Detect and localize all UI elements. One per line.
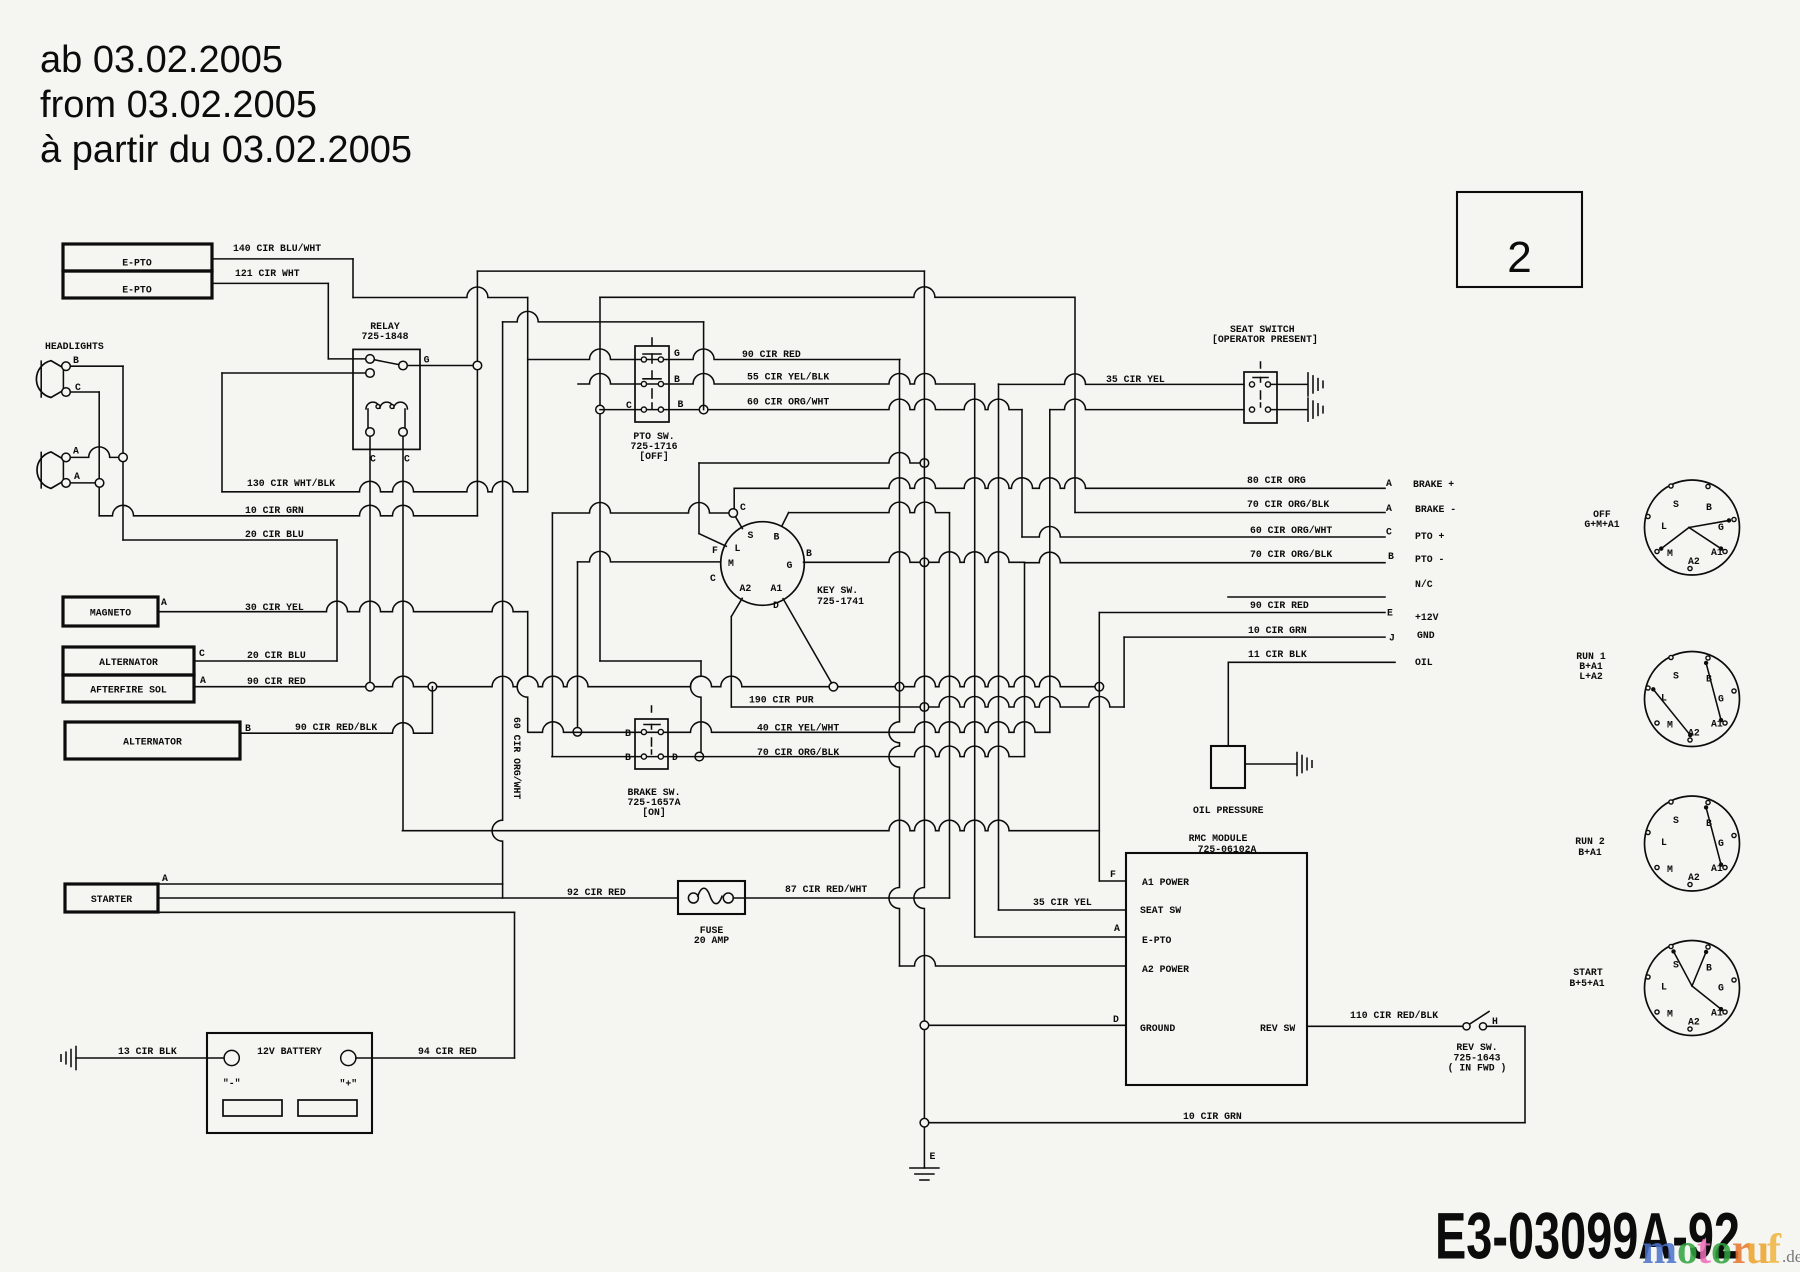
- wire brake- drop: [1074, 297, 1076, 512]
- svg-text:35 CIR YEL: 35 CIR YEL: [1106, 374, 1165, 385]
- wire headlight B to bus: [71, 365, 123, 367]
- brake switch contacts top: [641, 729, 646, 734]
- svg-text:B: B: [625, 728, 631, 739]
- svg-text:E: E: [1387, 608, 1393, 619]
- 12V BATTERY box: [207, 1033, 372, 1133]
- svg-text:à partir du 03.02.2005: à partir du 03.02.2005: [40, 129, 412, 171]
- svg-text:G: G: [1718, 522, 1724, 533]
- svg-text:START: START: [1573, 967, 1603, 978]
- wire branch down to PTO C east: [703, 322, 705, 410]
- svg-text:J: J: [1389, 633, 1395, 644]
- svg-text:S: S: [1673, 671, 1679, 682]
- svg-text:G: G: [674, 348, 680, 359]
- svg-text:140 CIR BLU/WHT: 140 CIR BLU/WHT: [233, 243, 321, 254]
- svg-text:OIL PRESSURE: OIL PRESSURE: [1193, 805, 1264, 816]
- svg-text:L: L: [735, 543, 741, 554]
- seat switch actuator: [1260, 362, 1262, 368]
- svg-text:90 CIR RED: 90 CIR RED: [247, 676, 306, 687]
- wire row from relay coil to A1 power: [402, 820, 1099, 831]
- junction PTO C west: [596, 405, 605, 414]
- fuse terminal left: [688, 893, 698, 903]
- svg-text:STARTER: STARTER: [91, 894, 132, 905]
- wire 40 YEL/WHT riser: [1049, 410, 1051, 733]
- svg-text:o: o: [1677, 1227, 1698, 1272]
- wire key M drop: [578, 551, 723, 562]
- svg-text:13 CIR BLK: 13 CIR BLK: [118, 1046, 177, 1057]
- wire PTO+ drop: [1021, 410, 1023, 537]
- svg-text:60 CIR ORG/WHT: 60 CIR ORG/WHT: [747, 397, 829, 408]
- svg-text:B+A1: B+A1: [1578, 847, 1602, 858]
- junction PTO C east drop: [699, 405, 708, 414]
- svg-text:10 CIR GRN: 10 CIR GRN: [1183, 1111, 1242, 1122]
- battery terminal negative: [224, 1050, 239, 1065]
- junction key B to ground bus: [920, 558, 929, 567]
- svg-text:20 CIR BLU: 20 CIR BLU: [247, 650, 306, 661]
- svg-text:BRAKE -: BRAKE -: [1415, 504, 1456, 515]
- headlight lamp 2: [37, 452, 62, 489]
- key switch A2 pin: [731, 598, 742, 616]
- svg-text:80 CIR ORG: 80 CIR ORG: [1247, 475, 1306, 486]
- relay contact C: [366, 369, 375, 378]
- svg-text:2: 2: [1507, 233, 1531, 282]
- svg-text:MAGNETO: MAGNETO: [90, 608, 131, 619]
- svg-text:90 CIR RED: 90 CIR RED: [742, 349, 801, 360]
- svg-text:B: B: [674, 374, 680, 385]
- svg-text:GND: GND: [1417, 630, 1435, 641]
- svg-text:A: A: [200, 675, 206, 686]
- junction ground bus at GROUND pin: [920, 1021, 929, 1030]
- svg-text:KEY SW.: KEY SW.: [817, 585, 858, 596]
- wire N/C: [1228, 596, 1385, 598]
- wire relay coil right drop: [402, 437, 404, 831]
- wire starter bottom row: [158, 911, 515, 913]
- svg-text:110 CIR RED/BLK: 110 CIR RED/BLK: [1350, 1010, 1438, 1021]
- junction relay coil left on 90 CIR RED: [366, 682, 375, 691]
- svg-text:"+": "+": [339, 1079, 357, 1090]
- wire key B to fuse feed: [789, 502, 950, 513]
- svg-text:A: A: [1386, 478, 1392, 489]
- battery terminal positive: [341, 1050, 356, 1065]
- svg-text:C: C: [710, 573, 716, 584]
- svg-text:B: B: [1388, 551, 1394, 562]
- svg-text:( IN FWD ): ( IN FWD ): [1448, 1063, 1507, 1074]
- battery cell plate right: [298, 1100, 357, 1116]
- headlight lamp 1: [36, 361, 62, 398]
- svg-text:94 CIR RED: 94 CIR RED: [418, 1046, 477, 1057]
- svg-text:G+M+A1: G+M+A1: [1584, 519, 1619, 530]
- svg-text:90 CIR RED: 90 CIR RED: [1250, 600, 1309, 611]
- wire 60 CIR ORG/WHT vertical: [492, 322, 502, 898]
- wire GND riser: [1123, 637, 1125, 707]
- svg-text:A1 POWER: A1 POWER: [1142, 877, 1189, 888]
- wire oil sensor to ground: [1245, 763, 1296, 765]
- junction on 40 CIR YEL/WHT: [573, 728, 582, 737]
- PTO switch contacts row y=409.6: [641, 407, 646, 412]
- svg-text:[ON]: [ON]: [642, 807, 666, 818]
- svg-text:H: H: [1492, 1016, 1498, 1027]
- fuse 20 AMP body: [678, 881, 745, 914]
- PTO switch actuator: [651, 338, 653, 345]
- battery cell plate left: [223, 1100, 282, 1116]
- fuse element: [698, 888, 722, 903]
- svg-text:A1: A1: [771, 583, 783, 594]
- junction key switch D on 90 CIR RED: [829, 682, 838, 691]
- svg-text:A2: A2: [1688, 556, 1700, 567]
- svg-text:12V BATTERY: 12V BATTERY: [257, 1046, 322, 1057]
- wire headlight A to junction: [71, 447, 119, 458]
- wire upper right distribution row: [600, 287, 1074, 298]
- junction ground bus at 10 CIR GRN: [920, 1118, 929, 1127]
- OIL PRESSURE sensor box: [1211, 746, 1245, 788]
- svg-text:F: F: [1110, 869, 1116, 880]
- relay coil: [366, 402, 407, 409]
- svg-text:C: C: [740, 502, 746, 513]
- svg-text:A: A: [74, 471, 80, 482]
- PTO switch contacts row y=359.5: [641, 357, 646, 362]
- relay switch blade: [374, 360, 398, 365]
- seat switch contacts top: [1249, 382, 1254, 387]
- brake switch contacts bottom: [641, 754, 646, 759]
- svg-text:ALTERNATOR: ALTERNATOR: [123, 737, 182, 748]
- svg-text:D: D: [773, 600, 779, 611]
- wire relay coil left drop: [369, 437, 371, 682]
- headlight 1 terminal C: [62, 388, 71, 397]
- wire fuse feed vertical: [949, 513, 951, 898]
- wire seat switch to ground top: [1271, 383, 1307, 385]
- junction on ground bus upper: [920, 459, 929, 468]
- svg-text:35 CIR YEL: 35 CIR YEL: [1033, 897, 1092, 908]
- svg-text:AFTERFIRE SOL: AFTERFIRE SOL: [90, 685, 167, 696]
- svg-text:D: D: [1113, 1014, 1119, 1025]
- junction on lamp bus: [119, 453, 128, 462]
- wire seat switch to ground bottom: [1271, 409, 1307, 411]
- svg-text:+12V: +12V: [1415, 612, 1439, 623]
- svg-text:725-1741: 725-1741: [817, 596, 864, 607]
- headlight 2 terminal A2: [62, 479, 71, 488]
- svg-text:S: S: [1673, 499, 1679, 510]
- svg-text:D: D: [672, 752, 678, 763]
- wire seat switch pin drop: [998, 384, 1000, 910]
- svg-text:"-": "-": [223, 1078, 241, 1089]
- svg-text:G: G: [787, 560, 793, 571]
- svg-text:REV SW: REV SW: [1260, 1023, 1295, 1034]
- svg-text:A: A: [73, 446, 79, 457]
- fuse terminal right: [723, 893, 733, 903]
- svg-text:L+A2: L+A2: [1579, 671, 1603, 682]
- wire headlight A2 to junction: [71, 482, 95, 484]
- relay coil pin C (right): [399, 428, 408, 437]
- svg-text:B: B: [625, 752, 631, 763]
- wire branch row to PTO C: [503, 311, 704, 322]
- PTO switch body: [635, 346, 669, 422]
- svg-text:B: B: [1706, 963, 1712, 974]
- svg-text:ab 03.02.2005: ab 03.02.2005: [40, 39, 283, 81]
- ground chassis at battery: [75, 1047, 77, 1070]
- AFTERFIRE SOL box: [63, 675, 194, 702]
- svg-text:t: t: [1697, 1227, 1711, 1272]
- svg-text:92 CIR RED: 92 CIR RED: [567, 887, 626, 898]
- svg-text:S: S: [1673, 815, 1679, 826]
- svg-text:S: S: [748, 530, 754, 541]
- svg-text:PTO +: PTO +: [1415, 531, 1445, 542]
- junction relay G on loop: [473, 361, 482, 370]
- svg-text:B+5+A1: B+5+A1: [1569, 978, 1604, 989]
- ground chassis seat top: [1307, 373, 1309, 396]
- svg-text:from 03.02.2005: from 03.02.2005: [40, 84, 317, 126]
- svg-text:M: M: [1667, 720, 1673, 731]
- svg-text:G: G: [1718, 983, 1724, 994]
- wire PTO C bus vertical: [599, 297, 601, 661]
- svg-text:G: G: [1718, 694, 1724, 705]
- svg-text:M: M: [728, 558, 734, 569]
- svg-text:ALTERNATOR: ALTERNATOR: [99, 657, 158, 668]
- svg-text:B: B: [678, 399, 684, 410]
- svg-text:C: C: [370, 454, 376, 465]
- RMC A2 POWER wire: [900, 956, 1127, 967]
- svg-text:M: M: [1667, 548, 1673, 559]
- svg-text:BRAKE +: BRAKE +: [1413, 479, 1454, 490]
- svg-text:L: L: [1661, 837, 1667, 848]
- svg-text:B: B: [245, 723, 251, 734]
- svg-text:55 CIR YEL/BLK: 55 CIR YEL/BLK: [747, 372, 829, 383]
- svg-text:C: C: [199, 648, 205, 659]
- svg-text:60 CIR ORG/WHT: 60 CIR ORG/WHT: [1250, 525, 1332, 536]
- svg-text:.de: .de: [1782, 1247, 1800, 1266]
- svg-text:RUN 2: RUN 2: [1575, 836, 1605, 847]
- wire top-right corner row: [699, 453, 924, 464]
- svg-text:A: A: [162, 873, 168, 884]
- svg-text:GROUND: GROUND: [1140, 1023, 1175, 1034]
- svg-text:PTO -: PTO -: [1415, 554, 1444, 565]
- svg-text:[OFF]: [OFF]: [639, 451, 668, 462]
- ALTERNATOR box (lower): [65, 722, 240, 759]
- relay contact B: [399, 361, 408, 370]
- svg-text:f: f: [1767, 1227, 1782, 1272]
- wire from relay contact C to left loop: [222, 372, 365, 374]
- seat switch contacts bottom: [1249, 407, 1254, 412]
- svg-text:u: u: [1746, 1227, 1769, 1272]
- key switch C connector: [729, 509, 738, 518]
- key switch B pin stub: [781, 513, 788, 528]
- wire E-PTO pin drop: [974, 384, 976, 937]
- svg-text:A2: A2: [1688, 1017, 1700, 1028]
- svg-text:C: C: [1386, 527, 1392, 538]
- junction on ground bus: [95, 479, 104, 488]
- brake switch actuator: [651, 706, 653, 712]
- svg-text:20 CIR BLU: 20 CIR BLU: [245, 529, 304, 540]
- ground chassis at oil sensor: [1296, 753, 1298, 776]
- svg-text:L: L: [1661, 521, 1667, 532]
- svg-text:SEAT SW: SEAT SW: [1140, 905, 1181, 916]
- svg-text:E: E: [930, 1151, 936, 1162]
- junction ground bus on 190 CIR PUR: [920, 703, 929, 712]
- wire jog row to brake net: [600, 660, 701, 662]
- svg-text:725-1848: 725-1848: [361, 331, 408, 342]
- junction on 70 CIR ORG/BLK: [695, 752, 704, 761]
- svg-text:90 CIR RED/BLK: 90 CIR RED/BLK: [295, 722, 377, 733]
- svg-text:M: M: [1667, 1009, 1673, 1020]
- svg-text:C: C: [626, 400, 632, 411]
- wire headlight C down: [71, 391, 100, 393]
- connector E-PTO (upper): [63, 244, 212, 271]
- svg-text:E-PTO: E-PTO: [122, 258, 152, 269]
- svg-text:RMC MODULE: RMC MODULE: [1189, 833, 1248, 844]
- wire from relay G to junction: [408, 365, 478, 367]
- svg-text:G: G: [424, 355, 430, 366]
- svg-text:70 CIR ORG/BLK: 70 CIR ORG/BLK: [1247, 499, 1329, 510]
- key switch 725-1741 body: [721, 522, 805, 606]
- svg-text:L: L: [1661, 982, 1667, 993]
- svg-text:o: o: [1711, 1227, 1732, 1272]
- svg-text:A: A: [1386, 503, 1392, 514]
- wire top distribution row: [477, 270, 924, 272]
- svg-text:70 CIR ORG/BLK: 70 CIR ORG/BLK: [1250, 549, 1332, 560]
- svg-text:C: C: [404, 454, 410, 465]
- svg-text:A2 POWER: A2 POWER: [1142, 964, 1189, 975]
- svg-text:B: B: [73, 355, 79, 366]
- svg-text:60 CIR ORG/WHT: 60 CIR ORG/WHT: [511, 717, 522, 799]
- seat switch body: [1244, 372, 1277, 423]
- wire seat switch lower row: [1050, 399, 1244, 410]
- svg-text:B: B: [806, 548, 812, 559]
- svg-text:11 CIR BLK: 11 CIR BLK: [1248, 649, 1307, 660]
- ALTERNATOR box (upper): [63, 647, 194, 675]
- junction alternator drop on 90 CIR RED: [428, 682, 437, 691]
- svg-text:87 CIR RED/WHT: 87 CIR RED/WHT: [785, 884, 867, 895]
- relay contact A: [366, 355, 375, 364]
- svg-text:E-PTO: E-PTO: [122, 285, 152, 296]
- svg-text:[OPERATOR PRESENT]: [OPERATOR PRESENT]: [1212, 334, 1318, 345]
- page number box '2': [1457, 192, 1582, 287]
- ground chassis seat bottom: [1307, 398, 1309, 421]
- junction ground bus on 90 CIR RED: [895, 682, 904, 691]
- svg-text:G: G: [1718, 838, 1724, 849]
- svg-text:190 CIR PUR: 190 CIR PUR: [749, 695, 814, 706]
- svg-text:F: F: [712, 545, 718, 556]
- wire loop via relay G junction: [476, 271, 478, 516]
- svg-text:B: B: [774, 532, 780, 543]
- reverse switch 725-1643: [1463, 1023, 1470, 1030]
- wire key B row (70 CIR ORG/BLK PTO-): [804, 552, 1025, 563]
- svg-text:10 CIR GRN: 10 CIR GRN: [245, 505, 304, 516]
- headlight 2 terminal A: [62, 453, 71, 462]
- wire 140 net vertical: [527, 298, 529, 492]
- junction +12V drop on 90 CIR RED: [1095, 682, 1104, 691]
- brake switch body: [635, 719, 668, 769]
- svg-text:OIL: OIL: [1415, 657, 1433, 668]
- svg-text:A: A: [161, 597, 167, 608]
- svg-text:B: B: [1706, 502, 1712, 513]
- svg-text:N/C: N/C: [1415, 579, 1433, 590]
- svg-text:A2: A2: [1688, 872, 1700, 883]
- wire starter A row: [158, 883, 503, 885]
- svg-text:HEADLIGHTS: HEADLIGHTS: [45, 341, 104, 352]
- wire reverse switch return: [1487, 1025, 1525, 1027]
- relay coil pin C (left): [366, 428, 375, 437]
- svg-text:REV SW.: REV SW.: [1456, 1042, 1497, 1053]
- PTO switch contacts row y=384: [641, 381, 646, 386]
- svg-text:A2: A2: [740, 583, 752, 594]
- svg-text:130 CIR WHT/BLK: 130 CIR WHT/BLK: [247, 478, 335, 489]
- headlight 1 terminal B: [62, 362, 71, 371]
- wire ground bus vertical: [914, 271, 924, 1168]
- wire key C row west: [552, 503, 729, 514]
- STARTER box: [65, 884, 158, 912]
- wire +12V / A1 power vertical: [1098, 613, 1100, 882]
- svg-text:M: M: [1667, 864, 1673, 875]
- svg-text:10 CIR GRN: 10 CIR GRN: [1248, 625, 1307, 636]
- connector E-PTO (lower): [63, 271, 212, 298]
- svg-text:20 AMP: 20 AMP: [694, 935, 729, 946]
- svg-text:121 CIR WHT: 121 CIR WHT: [235, 268, 300, 279]
- svg-text:E-PTO: E-PTO: [1142, 935, 1172, 946]
- svg-text:m: m: [1642, 1227, 1677, 1272]
- svg-text:A: A: [1114, 923, 1120, 934]
- wire PTO- riser: [1024, 562, 1026, 756]
- MAGNETO box: [63, 597, 158, 626]
